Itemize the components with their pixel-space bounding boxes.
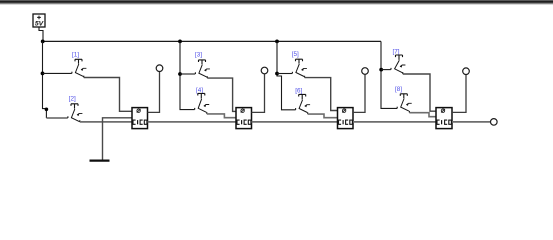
wire switch [5] input — [277, 73, 292, 75]
svg-text:[8]: [8] — [395, 86, 402, 93]
power source VCC 5V — [33, 14, 45, 28]
svg-text:5V: 5V — [35, 21, 45, 28]
switch [3] push-button — [195, 52, 210, 79]
wire U2 pin S to probe P2 — [252, 74, 265, 113]
node B junction — [178, 40, 182, 44]
wire U1 pin B to ground — [103, 118, 133, 160]
node A junction — [41, 40, 45, 44]
ground — [90, 160, 110, 162]
full-adder U2 — [236, 108, 252, 129]
wire switch [6] to U3 pin B — [308, 114, 338, 118]
wire U1 CO to U2 CI rail — [148, 121, 237, 123]
wire switch [7] input — [381, 69, 391, 71]
wire switch [2] input — [46, 117, 67, 119]
wire switch [3] input — [180, 73, 195, 75]
full-adder U3 — [338, 108, 354, 129]
switch [8] push-button — [395, 86, 412, 113]
full-adder U4 — [436, 108, 452, 129]
junction stage2 switch [3] tap — [178, 72, 182, 76]
wire switch [1] to U1 pin A — [84, 78, 132, 112]
wire U1 pin S to probe P1 — [148, 71, 160, 112]
wire U4 pin S to probe P4 — [452, 74, 466, 112]
switch [2] push-button — [68, 96, 83, 122]
svg-text:[3]: [3] — [195, 52, 202, 59]
probe P4 — [463, 68, 470, 75]
wire U2 CO to U3 CI rail — [252, 121, 338, 123]
wire switch [7] to U4 pin A — [403, 74, 436, 111]
junction stage4 switch [7] tap — [379, 68, 383, 72]
wire U3 pin S to probe P3 — [353, 74, 365, 112]
wire switch [8] to U4 pin B — [409, 113, 436, 117]
wire from 5V source to node A — [39, 27, 43, 41]
wire top rail — [43, 40, 382, 42]
probe P1 — [156, 65, 163, 72]
probe P2 — [261, 67, 268, 74]
switch [7] push-button — [391, 48, 405, 74]
wire stage1 column — [43, 41, 47, 118]
switch [5] push-button — [292, 51, 307, 77]
svg-text:[6]: [6] — [295, 88, 302, 95]
switch [4] push-button — [195, 87, 210, 114]
probe P5 carry output — [491, 119, 498, 126]
junction stage1 column corner — [45, 108, 49, 112]
wire switch [4] to U2 pin B — [207, 114, 236, 118]
svg-text:[7]: [7] — [393, 48, 400, 55]
svg-text:[1]: [1] — [72, 52, 79, 59]
switch [6] push-button — [295, 88, 310, 115]
junction stage1 switch [1] tap — [41, 72, 45, 76]
wire switch [1] input — [43, 72, 72, 74]
wire switch [3] to U2 pin A — [207, 78, 236, 111]
wire stage4 column — [381, 41, 397, 108]
probe P3 — [362, 68, 369, 75]
wire switch [5] to U3 pin A — [305, 78, 338, 111]
wire stage2 column — [180, 41, 195, 109]
top window border bar — [0, 0, 553, 5]
junction stage3 switch [5] tap — [275, 72, 279, 76]
wire stage3 column — [277, 41, 296, 109]
node C junction — [275, 40, 279, 44]
full-adder U1 — [132, 108, 148, 129]
wire switch [2] to U1 pin CI — [80, 121, 132, 123]
wire U4 CO to output probe — [452, 121, 490, 123]
switch [1] push-button — [72, 52, 87, 78]
svg-text:[2]: [2] — [69, 96, 76, 103]
svg-text:[5]: [5] — [292, 51, 299, 58]
wire U3 CO to U4 CI rail — [353, 121, 436, 123]
